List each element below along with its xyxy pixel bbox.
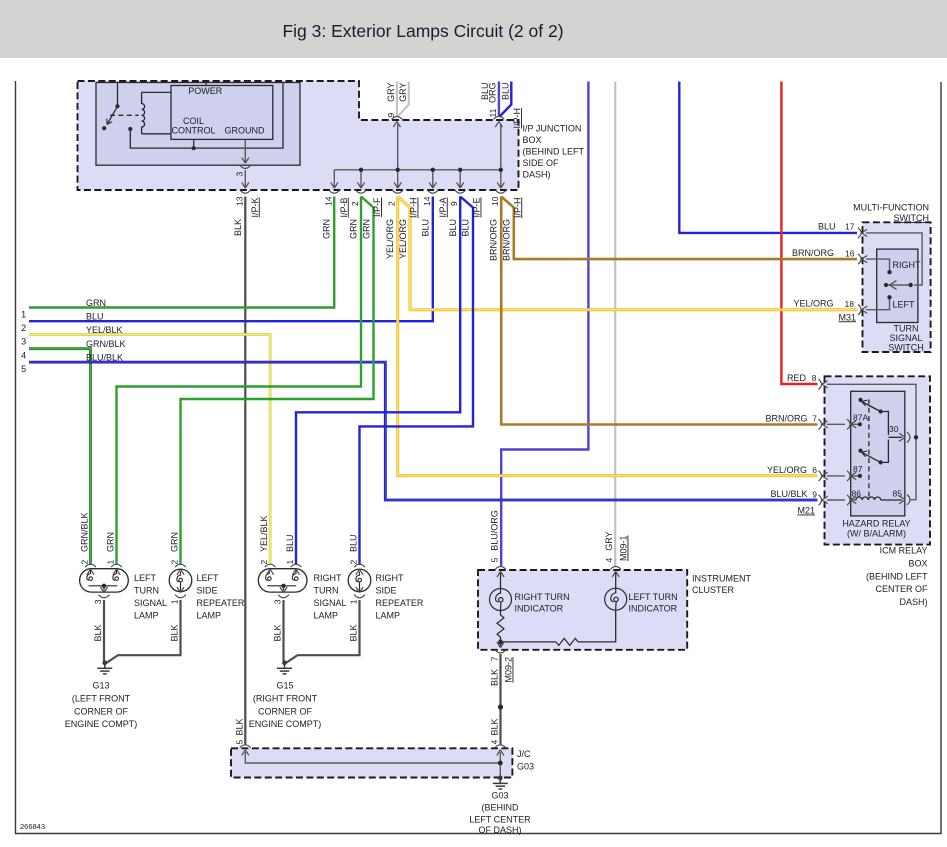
wire pin 7 to 87A bbox=[827, 423, 845, 425]
connector 85 at relay bbox=[899, 495, 910, 505]
splice dot on BLK wire bbox=[498, 704, 503, 709]
left side repeater lamp body bbox=[169, 569, 192, 592]
svg-text:2: 2 bbox=[259, 560, 269, 565]
wire GRY from top to instrument cluster pin 4 bbox=[614, 82, 616, 567]
svg-text:BLU: BLU bbox=[349, 534, 359, 552]
svg-text:BLU/BLK: BLU/BLK bbox=[770, 489, 807, 499]
connector pin 4 at J/C box bbox=[495, 745, 506, 756]
svg-text:(BEHIND: (BEHIND bbox=[481, 803, 519, 813]
svg-text:J/C: J/C bbox=[517, 749, 531, 759]
switch pole arm with arrow bbox=[887, 284, 911, 286]
wire pin 18 to LEFT contact bbox=[866, 300, 890, 310]
svg-text:GRN: GRN bbox=[321, 219, 331, 239]
connector pin 6 at ICM box bbox=[819, 471, 828, 481]
svg-text:BRN/ORG: BRN/ORG bbox=[502, 219, 512, 261]
connector pin 14 I/P-B bbox=[329, 182, 340, 193]
svg-text:M09-1: M09-1 bbox=[619, 535, 629, 561]
svg-text:3: 3 bbox=[21, 337, 26, 347]
wire GRN junction pin 2 I/P-F straight branch to left turn signal lamp pin 1 bbox=[117, 197, 362, 566]
svg-text:3: 3 bbox=[273, 599, 283, 604]
svg-text:GRN: GRN bbox=[361, 219, 371, 239]
svg-text:YEL/ORG: YEL/ORG bbox=[398, 219, 408, 259]
svg-text:2: 2 bbox=[21, 323, 26, 333]
svg-text:BOX: BOX bbox=[908, 558, 927, 568]
connector pin 5 at cluster bbox=[495, 567, 506, 578]
svg-text:BOX: BOX bbox=[523, 135, 542, 145]
wire BLU junction pin 9 I/P-E straight branch to right turn signal lamp pin 1 bbox=[296, 197, 460, 566]
connector pin 16 bbox=[858, 254, 867, 264]
connector right turn lamp pin 1 bbox=[291, 564, 302, 575]
svg-text:SIDE OF: SIDE OF bbox=[523, 158, 560, 168]
svg-text:BLK: BLK bbox=[233, 219, 243, 236]
hazard switch 1 blade bbox=[863, 402, 881, 412]
RIGHT contact dot bbox=[887, 270, 891, 274]
relay actuation dashed link bbox=[110, 114, 139, 116]
wire BLU branch entering top to junction pin 11 (diagonal) bbox=[499, 82, 511, 117]
svg-text:GRY: GRY bbox=[398, 83, 408, 102]
hazard switch 2 blade bbox=[863, 453, 881, 463]
svg-text:BLU: BLU bbox=[818, 221, 836, 231]
connector right repeater pin 1 bbox=[354, 587, 365, 598]
relay stationary contact dot and wire to COIL CONTROL bbox=[128, 127, 132, 131]
svg-text:9: 9 bbox=[449, 201, 459, 206]
wire pin 17 to switch pole bbox=[866, 233, 922, 285]
connector left repeater pin 1 bbox=[175, 587, 186, 598]
svg-text:LAMP: LAMP bbox=[314, 611, 339, 621]
svg-text:BLU: BLU bbox=[420, 219, 430, 237]
hazard relay inner box bbox=[851, 391, 905, 516]
switch1 contact dot bbox=[879, 409, 883, 413]
connector pin 5 at J/C box bbox=[240, 745, 251, 756]
connector pin 9 I/P-E bbox=[455, 182, 466, 193]
svg-text:REPEATER: REPEATER bbox=[376, 598, 424, 608]
svg-text:LEFT CENTER: LEFT CENTER bbox=[469, 815, 531, 825]
svg-text:YEL/ORG: YEL/ORG bbox=[767, 465, 807, 475]
wire switch2 contact up to pin 30 node bbox=[881, 440, 889, 463]
svg-text:TURN: TURN bbox=[314, 586, 339, 596]
connector right turn lamp pin 3 bbox=[278, 587, 289, 598]
wire coil top to POWER box bbox=[142, 91, 171, 93]
connector pin 11 at junction top bbox=[494, 117, 505, 128]
cluster bus resistor bbox=[556, 638, 578, 645]
svg-text:OF DASH): OF DASH) bbox=[478, 825, 521, 835]
svg-text:Fig 3: Exterior Lamps Circuit: Fig 3: Exterior Lamps Circuit (2 of 2) bbox=[282, 21, 563, 41]
wire coil to pin 85 bbox=[881, 499, 902, 501]
svg-text:BLK: BLK bbox=[490, 718, 500, 735]
wire BRN/ORG junction pin 10 straight branch to hazard relay pin 7 bbox=[501, 197, 817, 425]
svg-text:ENGINE COMPT): ENGINE COMPT) bbox=[249, 719, 322, 729]
right turn signal lamp body bbox=[258, 569, 307, 592]
junction box middle enclosure right edge bbox=[130, 83, 283, 149]
svg-text:G15: G15 bbox=[276, 681, 293, 691]
svg-text:RIGHT: RIGHT bbox=[893, 260, 922, 270]
connector pin 9 at ICM box bbox=[819, 495, 828, 505]
svg-text:BRN/ORG: BRN/ORG bbox=[792, 248, 834, 258]
wire BLK left turn signal lamp pin 3 to ground G13 bbox=[103, 600, 105, 661]
svg-text:CONTROL: CONTROL bbox=[171, 126, 215, 136]
svg-text:YEL/ORG: YEL/ORG bbox=[793, 299, 833, 309]
svg-text:LAMP: LAMP bbox=[134, 611, 159, 621]
svg-text:14: 14 bbox=[323, 196, 333, 206]
LEFT contact dot bbox=[887, 295, 891, 299]
wire pin 9 to 86 bbox=[827, 499, 845, 501]
svg-text:BRN/ORG: BRN/ORG bbox=[489, 219, 499, 261]
relay switch pivot dot bbox=[115, 104, 119, 108]
svg-text:BLU/BLK: BLU/BLK bbox=[86, 353, 123, 363]
wire pin 5 to right turn indicator bbox=[500, 572, 502, 589]
svg-text:30: 30 bbox=[889, 424, 899, 434]
wire BLU from top to multi-function switch pin 17 bbox=[679, 82, 857, 233]
wire BLK right side repeater lamp pin 1 to ground G15 bbox=[285, 600, 360, 664]
svg-text:(BEHIND LEFT: (BEHIND LEFT bbox=[523, 146, 585, 156]
svg-text:I/P-H: I/P-H bbox=[512, 198, 522, 219]
87A terminal dot bbox=[858, 422, 862, 426]
svg-text:CORNER OF: CORNER OF bbox=[74, 706, 129, 716]
svg-text:BLK: BLK bbox=[234, 718, 244, 735]
svg-text:1: 1 bbox=[285, 560, 295, 565]
svg-text:M31: M31 bbox=[838, 312, 856, 322]
connector 30 at relay bbox=[899, 432, 910, 442]
svg-text:GRN: GRN bbox=[106, 532, 116, 552]
wire GRN junction pin 2 I/P-F diagonal branch to left side repeater lamp bbox=[181, 197, 374, 566]
wire POWER box top stub bbox=[205, 82, 207, 86]
svg-text:LEFT: LEFT bbox=[134, 573, 157, 583]
bus drop to exit 14 I/P-B bbox=[333, 170, 335, 187]
svg-text:G03: G03 bbox=[517, 762, 534, 772]
svg-text:I/P JUNCTION: I/P JUNCTION bbox=[523, 123, 582, 133]
switch2 contact dot bbox=[879, 460, 883, 464]
hazard relay actuation dashed link bbox=[868, 399, 870, 497]
svg-text:2: 2 bbox=[170, 560, 180, 565]
connector pin 7 at ICM box bbox=[819, 419, 828, 429]
ICM relay box (dashed) bbox=[825, 376, 931, 544]
svg-text:REPEATER: REPEATER bbox=[197, 598, 245, 608]
svg-text:GRY: GRY bbox=[604, 531, 614, 550]
connector pin 10 I/P-H bbox=[495, 182, 506, 193]
connector pin 17 bbox=[858, 228, 867, 238]
svg-text:RIGHT: RIGHT bbox=[376, 573, 405, 583]
svg-text:3: 3 bbox=[93, 599, 103, 604]
connector left turn lamp pin 2 bbox=[85, 564, 96, 575]
wire BLU junction pin 9 I/P-E diagonal branch to right side repeater lamp bbox=[360, 197, 474, 566]
svg-text:M21: M21 bbox=[797, 506, 815, 516]
svg-text:16: 16 bbox=[845, 248, 855, 258]
svg-text:GRN/BLK: GRN/BLK bbox=[80, 512, 90, 552]
svg-text:6: 6 bbox=[812, 465, 817, 475]
svg-text:BLK: BLK bbox=[170, 625, 180, 642]
svg-text:G03: G03 bbox=[491, 791, 508, 801]
switch1 pivot dot bbox=[858, 398, 862, 402]
left turn indicator bulb bbox=[605, 588, 627, 610]
I/P junction box (dashed) bbox=[78, 81, 519, 190]
svg-text:BLK: BLK bbox=[490, 669, 500, 686]
svg-text:DASH): DASH) bbox=[523, 169, 551, 179]
svg-text:BLK: BLK bbox=[349, 625, 359, 642]
svg-text:1: 1 bbox=[21, 310, 26, 320]
connector pin 2 I/P-F bbox=[356, 182, 367, 193]
svg-text:BRN/ORG: BRN/ORG bbox=[765, 413, 807, 423]
wire BLU junction pin 14 I/P-A down to left row 2 bbox=[29, 197, 433, 322]
svg-text:LEFT TURN: LEFT TURN bbox=[629, 592, 678, 602]
pin 30 junction dot on feed wire bbox=[914, 435, 918, 439]
svg-text:BLU: BLU bbox=[500, 83, 510, 101]
instrument cluster box (dashed) bbox=[478, 570, 687, 650]
title bar bbox=[0, 0, 947, 58]
turn signal switch inner box bbox=[877, 249, 918, 322]
svg-text:7: 7 bbox=[812, 414, 817, 424]
svg-text:(LEFT FRONT: (LEFT FRONT bbox=[72, 693, 131, 703]
ground G03 bbox=[493, 776, 508, 790]
connector pin 9 at junction top bbox=[392, 117, 403, 128]
svg-text:2: 2 bbox=[80, 560, 90, 565]
connector pin 13 at junction bottom bbox=[240, 182, 251, 193]
svg-text:GROUND: GROUND bbox=[225, 126, 265, 136]
connector pin 8 at ICM box bbox=[819, 379, 828, 389]
svg-text:9: 9 bbox=[386, 113, 396, 118]
svg-text:87A: 87A bbox=[853, 413, 868, 423]
connector left repeater pin 2 bbox=[175, 564, 186, 575]
connector 86 at relay bbox=[847, 495, 856, 505]
wire junction pin 9 down through bus to exit 2 I/P-H bbox=[397, 124, 399, 187]
wire switch1 contact to pin 30 node bbox=[881, 412, 889, 436]
svg-text:LEFT: LEFT bbox=[893, 299, 916, 309]
svg-text:(RIGHT FRONT: (RIGHT FRONT bbox=[253, 693, 318, 703]
wire BLK left side repeater lamp pin 1 to ground G13 bbox=[106, 600, 181, 664]
svg-text:85: 85 bbox=[893, 489, 903, 499]
turn signal switch internals bbox=[866, 233, 922, 310]
svg-text:2: 2 bbox=[350, 201, 360, 206]
svg-text:1: 1 bbox=[106, 560, 116, 565]
svg-text:TURN: TURN bbox=[134, 586, 159, 596]
J/C G03 internals bbox=[245, 752, 500, 779]
wire pin 6 to 87 bbox=[827, 475, 845, 477]
wire BLU/ORG from top to instrument cluster pin 5 bbox=[501, 82, 588, 567]
svg-text:I/P-B: I/P-B bbox=[339, 198, 349, 218]
svg-text:BLK: BLK bbox=[273, 625, 283, 642]
wire pin 8 RED feed across top and down right side bbox=[827, 384, 916, 437]
wire COIL CONTROL pin down to middle enclosure bottom bbox=[193, 139, 195, 148]
wire BLK right turn signal lamp pin 3 to ground G15 bbox=[282, 600, 284, 661]
svg-text:POWER: POWER bbox=[188, 86, 223, 96]
svg-text:GRY: GRY bbox=[386, 83, 396, 102]
pole left dot bbox=[884, 283, 888, 287]
svg-text:RIGHT: RIGHT bbox=[314, 573, 343, 583]
ground G13 bbox=[97, 660, 112, 674]
relay POWER box bbox=[171, 86, 273, 140]
svg-text:5: 5 bbox=[234, 740, 244, 745]
connector 87 at relay bbox=[847, 471, 856, 481]
pole dot bbox=[909, 283, 913, 287]
wire pin 4 entry down through box to ground bbox=[499, 752, 501, 779]
wire pin 4 to left turn indicator bbox=[615, 572, 617, 589]
svg-text:YEL/ORG: YEL/ORG bbox=[385, 219, 395, 259]
connector left turn lamp pin 1 bbox=[111, 564, 122, 575]
svg-text:CLUSTER: CLUSTER bbox=[692, 585, 735, 595]
connector pin 18 bbox=[858, 305, 867, 315]
svg-text:HAZARD RELAY: HAZARD RELAY bbox=[842, 519, 910, 529]
svg-text:MULTI-FUNCTION: MULTI-FUNCTION bbox=[853, 203, 929, 213]
cluster bottom bus with resistor bbox=[501, 641, 557, 643]
relay switch lower contact dot bbox=[102, 126, 106, 130]
svg-text:1: 1 bbox=[170, 599, 180, 604]
bus drop to exit 14 I/P-A bbox=[432, 170, 434, 187]
switch2 pivot dot bbox=[858, 449, 862, 453]
svg-text:DASH): DASH) bbox=[899, 597, 927, 607]
svg-text:SIGNAL: SIGNAL bbox=[134, 598, 167, 608]
cluster bus junction dot bbox=[498, 640, 503, 645]
svg-text:I/P-H: I/P-H bbox=[409, 198, 419, 219]
svg-text:5: 5 bbox=[21, 364, 26, 374]
svg-text:YEL/BLK: YEL/BLK bbox=[86, 325, 123, 335]
svg-text:M09-2: M09-2 bbox=[504, 657, 514, 683]
bus drop to exit 2 I/P-F bbox=[360, 170, 362, 187]
wire GRY branch entering top to junction pin 9 (diagonal) bbox=[397, 82, 409, 117]
svg-text:17: 17 bbox=[845, 222, 855, 232]
wire GRN junction pin 14 down to left row 1 bbox=[29, 197, 334, 308]
svg-text:(BEHIND LEFT: (BEHIND LEFT bbox=[866, 571, 928, 581]
svg-text:GRN: GRN bbox=[348, 219, 358, 239]
svg-text:SIDE: SIDE bbox=[197, 586, 218, 596]
hazard relay coil bbox=[856, 497, 881, 500]
svg-text:1: 1 bbox=[349, 599, 359, 604]
right side repeater lamp body bbox=[348, 569, 371, 592]
svg-text:ORG: ORG bbox=[488, 83, 498, 104]
svg-text:BLU: BLU bbox=[448, 219, 458, 237]
wire GRN/BLK left row 4 to left turn signal lamp pin 2 bbox=[29, 349, 91, 565]
svg-text:GRN: GRN bbox=[170, 532, 180, 552]
svg-text:5: 5 bbox=[490, 558, 500, 563]
connector right turn lamp pin 2 bbox=[265, 564, 276, 575]
svg-text:2: 2 bbox=[349, 560, 359, 565]
svg-text:SIGNAL: SIGNAL bbox=[889, 333, 922, 343]
svg-text:8: 8 bbox=[812, 373, 817, 383]
junction box internal bus bbox=[334, 169, 501, 171]
svg-text:ENGINE COMPT): ENGINE COMPT) bbox=[65, 719, 138, 729]
wire BLK instrument cluster pin 7 to J/C G03 pin 4 bbox=[499, 654, 501, 746]
connector pin 2 I/P-H bbox=[392, 182, 403, 193]
wire pin 5 entry down to bus bbox=[245, 752, 500, 763]
relay coil bbox=[142, 92, 145, 133]
connector pin 4 at cluster bbox=[610, 567, 621, 578]
svg-text:I/P-E: I/P-E bbox=[472, 198, 482, 218]
wire right indicator to resistor and junction bbox=[500, 611, 502, 616]
svg-text:2: 2 bbox=[387, 201, 397, 206]
svg-text:INDICATOR: INDICATOR bbox=[515, 604, 564, 614]
multi-function switch box (dashed) bbox=[863, 222, 931, 352]
wire RED from top to hazard relay pin 8 bbox=[781, 82, 817, 385]
ground G15 bbox=[277, 660, 292, 674]
relay switch feed wire from box top bbox=[117, 83, 119, 107]
wire YEL/ORG junction pin 2 I/P-H diagonal branch to turn signal switch pin 18 bbox=[398, 197, 857, 310]
svg-text:4: 4 bbox=[604, 558, 614, 563]
svg-text:GRN/BLK: GRN/BLK bbox=[86, 339, 126, 349]
bus junction dots bbox=[359, 168, 503, 172]
svg-text:4: 4 bbox=[21, 351, 26, 361]
wire pin 16 to RIGHT contact bbox=[866, 259, 890, 270]
svg-text:INSTRUMENT: INSTRUMENT bbox=[692, 574, 751, 584]
svg-text:TURN: TURN bbox=[894, 324, 919, 334]
svg-text:I/P-F: I/P-F bbox=[372, 197, 382, 217]
svg-text:SWITCH: SWITCH bbox=[888, 343, 924, 353]
connector pin 3 bbox=[240, 158, 251, 169]
connector pin 7 at cluster bottom bbox=[495, 642, 506, 653]
svg-text:LAMP: LAMP bbox=[376, 611, 401, 621]
svg-text:ICM RELAY: ICM RELAY bbox=[880, 546, 928, 556]
svg-text:GRN: GRN bbox=[86, 298, 106, 308]
wire pin 30 node to connector bbox=[888, 436, 902, 438]
connector right repeater pin 2 bbox=[354, 564, 365, 575]
svg-text:CENTER OF: CENTER OF bbox=[875, 584, 928, 594]
svg-text:266843: 266843 bbox=[20, 822, 45, 831]
svg-text:RIGHT TURN: RIGHT TURN bbox=[515, 592, 570, 602]
svg-text:RED: RED bbox=[787, 373, 807, 383]
svg-text:CORNER OF: CORNER OF bbox=[258, 706, 313, 716]
svg-text:10: 10 bbox=[490, 196, 500, 206]
left turn signal lamp filaments and bus bbox=[89, 586, 118, 591]
svg-text:9: 9 bbox=[812, 489, 817, 499]
svg-text:4: 4 bbox=[490, 740, 500, 745]
bus drop to exit 9 I/P-E bbox=[459, 170, 461, 187]
wire BLK junction pin 13 down to J/C G03 pin 5 bbox=[244, 197, 246, 746]
left turn signal lamp body bbox=[80, 569, 129, 592]
wire BLU/ORG entering top to junction pin 11 (straight) bbox=[498, 82, 500, 117]
svg-text:INDICATOR: INDICATOR bbox=[629, 604, 678, 614]
svg-text:14: 14 bbox=[422, 196, 432, 206]
wire BRN/ORG junction pin 10 diagonal branch to turn signal switch pin 16 bbox=[501, 197, 857, 260]
wire YEL/BLK left row 3 to right turn signal lamp pin 2 bbox=[29, 335, 270, 566]
connector 87A at relay bbox=[847, 419, 856, 429]
svg-text:SIGNAL: SIGNAL bbox=[314, 598, 347, 608]
J/C G03 box (dashed) bbox=[231, 748, 512, 777]
svg-text:BLU: BLU bbox=[285, 534, 295, 552]
svg-text:I/P-H: I/P-H bbox=[512, 108, 522, 129]
87 terminal dot bbox=[858, 474, 862, 478]
relay switch blade with arrow bbox=[108, 106, 118, 123]
connector pin 14 I/P-A bbox=[427, 182, 438, 193]
junction box inner relay enclosure bbox=[96, 83, 300, 166]
svg-text:I/P-A: I/P-A bbox=[438, 198, 448, 218]
svg-text:(W/ B/ALARM): (W/ B/ALARM) bbox=[847, 529, 906, 539]
svg-text:3: 3 bbox=[234, 172, 244, 177]
svg-text:SWITCH: SWITCH bbox=[894, 213, 930, 223]
instrument cluster internals bbox=[501, 572, 616, 647]
svg-text:11: 11 bbox=[488, 108, 498, 117]
wire coil bottom to POWER box bbox=[142, 133, 171, 135]
svg-text:LEFT: LEFT bbox=[197, 573, 220, 583]
svg-text:BLU: BLU bbox=[461, 219, 471, 237]
wire GRY entering top to junction pin 9 (straight) bbox=[396, 82, 398, 117]
svg-text:BLU: BLU bbox=[86, 312, 104, 322]
svg-text:7: 7 bbox=[490, 656, 500, 661]
wire YEL/ORG junction pin 2 I/P-H straight branch to hazard relay pin 6 bbox=[398, 197, 818, 476]
wire BLU/BLK left row 5 to hazard relay pin 9 bbox=[29, 362, 818, 500]
svg-text:LAMP: LAMP bbox=[197, 611, 222, 621]
wire junction pin 11 down through bus to exit 10 I/P-H bbox=[500, 124, 502, 187]
svg-text:BLK: BLK bbox=[93, 625, 103, 642]
svg-text:86: 86 bbox=[852, 489, 862, 499]
svg-text:SIDE: SIDE bbox=[376, 586, 397, 596]
svg-text:87: 87 bbox=[853, 464, 863, 474]
svg-text:18: 18 bbox=[845, 299, 855, 309]
right turn indicator bulb bbox=[490, 589, 512, 611]
svg-text:I/P-K: I/P-K bbox=[250, 198, 260, 218]
hazard relay internals bbox=[827, 384, 916, 500]
J/C bus junction dot bbox=[498, 761, 503, 766]
svg-text:YEL/BLK: YEL/BLK bbox=[259, 515, 269, 552]
cluster dropping resistor bbox=[497, 615, 504, 637]
connector left turn lamp pin 3 bbox=[99, 587, 110, 598]
wire GROUND pin down through boxes to pin 3 and pin 13 bbox=[244, 139, 246, 162]
